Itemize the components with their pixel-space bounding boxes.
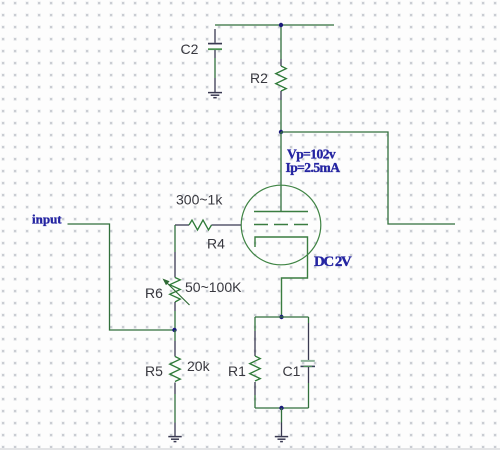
wire bottom node to ground bbox=[281, 408, 283, 423]
bottom edge artifact bbox=[0, 448, 500, 450]
resistor R6 potentiometer bbox=[163, 252, 190, 311]
ground under R5 bbox=[168, 423, 181, 442]
ground under RC box bbox=[275, 423, 288, 442]
wire R5 to ground bbox=[174, 394, 176, 423]
svg-text:R6: R6 bbox=[145, 285, 163, 301]
wire R4 corner to R6 bbox=[174, 225, 176, 252]
node plate junction bbox=[279, 130, 283, 134]
wire left branch bottom bbox=[254, 395, 256, 408]
wire right branch bottom bbox=[308, 383, 310, 408]
svg-text:R5: R5 bbox=[145, 363, 163, 379]
wire R2 to plate node bbox=[280, 100, 282, 132]
wire plate lead bbox=[280, 132, 282, 212]
wire top supply rail bbox=[215, 24, 334, 26]
svg-text:Ip=2.5mA: Ip=2.5mA bbox=[286, 160, 341, 175]
svg-text:C2: C2 bbox=[181, 41, 199, 57]
wire left branch top bbox=[254, 317, 256, 331]
wire R6 to input node bbox=[174, 311, 176, 330]
svg-text:DC 2V: DC 2V bbox=[314, 254, 352, 270]
capacitor C2 bbox=[208, 29, 222, 58]
wire RC box bottom bbox=[255, 407, 309, 409]
svg-text:50~100K: 50~100K bbox=[185, 279, 242, 295]
node bottom junction bbox=[279, 406, 283, 410]
resistor R5 bbox=[170, 341, 181, 394]
resistor R2 bbox=[276, 59, 287, 100]
svg-text:R4: R4 bbox=[207, 236, 225, 252]
node input junction bbox=[172, 328, 176, 332]
wire rail to R2 top bbox=[280, 25, 282, 59]
resistor R1 bbox=[250, 331, 261, 395]
svg-text:20k: 20k bbox=[187, 358, 211, 374]
svg-text:C1: C1 bbox=[283, 363, 301, 379]
node cathode junction bbox=[279, 315, 283, 319]
wire output stub bbox=[281, 132, 455, 224]
svg-text:R2: R2 bbox=[250, 70, 268, 86]
resistor R4 bbox=[175, 220, 241, 230]
ground under C2 bbox=[208, 78, 222, 98]
tube cathode bbox=[255, 237, 308, 317]
wire right branch top bbox=[308, 317, 310, 323]
node top rail junction bbox=[279, 23, 283, 27]
wire C2 to ground bbox=[214, 58, 216, 78]
tube grid bbox=[254, 224, 308, 226]
wire input bbox=[68, 224, 175, 330]
svg-text:R1: R1 bbox=[228, 363, 246, 379]
capacitor C1 bbox=[301, 323, 316, 383]
svg-text:input: input bbox=[32, 211, 62, 226]
wire RC box top bbox=[255, 316, 309, 318]
wire node to R5 bbox=[174, 330, 176, 341]
svg-text:300~1k: 300~1k bbox=[176, 192, 223, 208]
tube plate bbox=[254, 211, 308, 213]
op-amp U1 tube envelope bbox=[241, 185, 321, 265]
